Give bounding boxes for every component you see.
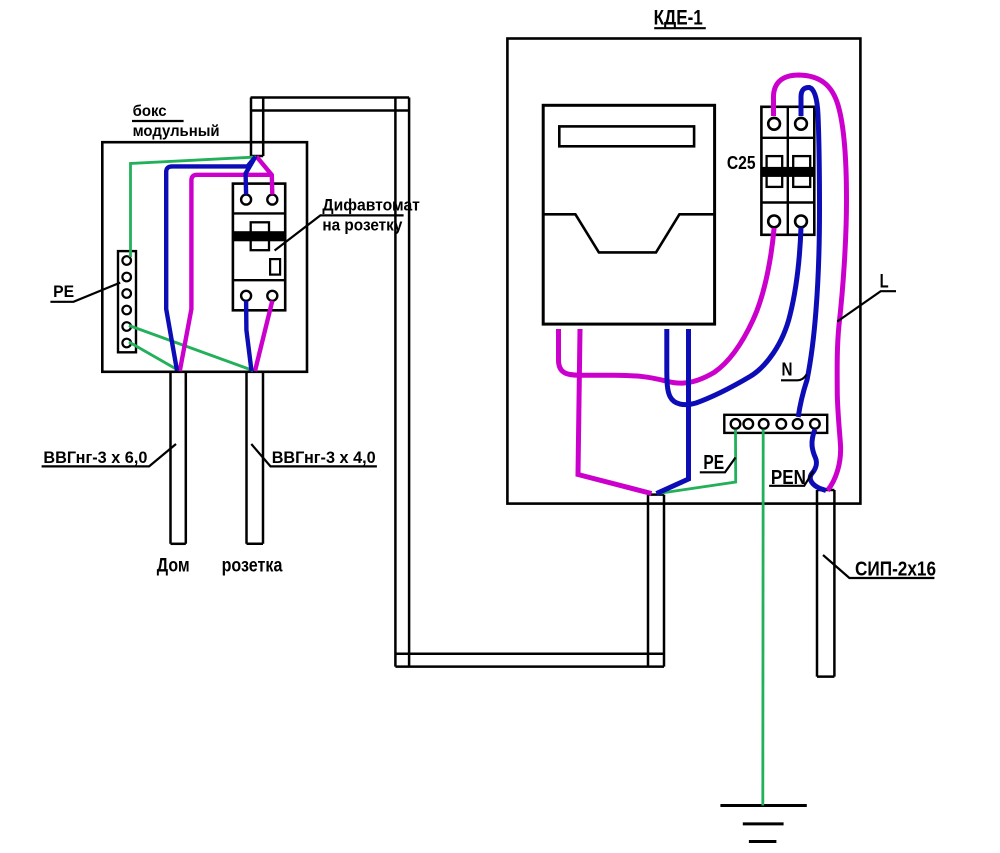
svg-text:ВВГнг-3 х 4,0: ВВГнг-3 х 4,0: [272, 449, 376, 467]
svg-text:Дом: Дом: [157, 555, 190, 576]
svg-text:PE: PE: [53, 282, 74, 301]
svg-text:КДЕ-1: КДЕ-1: [654, 6, 703, 30]
svg-text:Дифавтомат: Дифавтомат: [322, 196, 420, 214]
svg-text:модульный: модульный: [133, 123, 220, 140]
svg-text:L: L: [880, 271, 889, 292]
svg-text:на розетку: на розетку: [322, 216, 403, 234]
svg-text:бокс: бокс: [133, 103, 167, 120]
svg-text:розетка: розетка: [222, 555, 283, 576]
svg-text:ВВГнг-3 х 6,0: ВВГнг-3 х 6,0: [43, 449, 147, 467]
svg-text:PEN: PEN: [771, 467, 806, 489]
svg-text:С25: С25: [727, 153, 756, 173]
svg-text:N: N: [782, 359, 793, 380]
svg-text:PE: PE: [703, 452, 724, 474]
svg-text:СИП-2х16: СИП-2х16: [855, 557, 936, 580]
